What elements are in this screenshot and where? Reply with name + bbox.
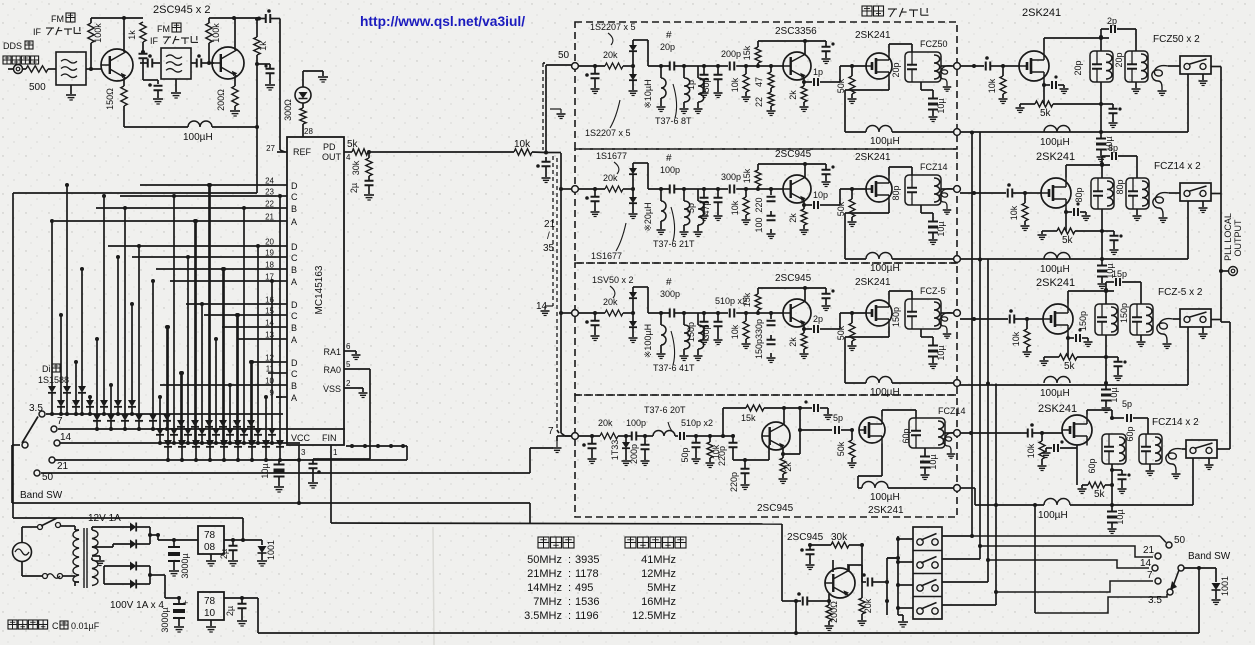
wire drain riser [1043, 38, 1045, 51]
diode 1S1588 [268, 428, 276, 435]
capacitor 220p 2 [743, 458, 747, 462]
coupling link [939, 313, 952, 333]
regulator 7808 [198, 526, 224, 554]
capacitor 1p [802, 80, 806, 84]
wire tank out [941, 65, 954, 67]
svg-text:330p: 330p [754, 319, 764, 339]
wire matrix column [166, 327, 168, 414]
pin 18 B [276, 268, 287, 270]
svg-text:#: # [666, 277, 672, 288]
capacitor 2p top coupling [1100, 29, 1102, 37]
svg-text:2SC945 x 2: 2SC945 x 2 [153, 4, 210, 16]
diode 1S1588 [191, 420, 199, 427]
wire FIN long to stack [887, 557, 898, 559]
resistor 220 [758, 188, 771, 190]
resistor 330p [758, 312, 771, 314]
ground relay [1202, 201, 1204, 207]
band SW right contacts [1166, 542, 1172, 548]
wire rail [960, 384, 1188, 386]
svg-text:1SV50 x 2: 1SV50 x 2 [592, 275, 634, 285]
wire bundle vertical 5 [1034, 505, 1036, 613]
svg-text:2SK241: 2SK241 [1022, 7, 1061, 19]
diode 1S1588 [107, 414, 115, 421]
wire matrix column [89, 397, 91, 400]
coupling link [939, 66, 952, 86]
FET buffer 2SK241 [866, 53, 892, 79]
ground relay [1202, 327, 1204, 333]
transistor Q2 2SC945 [212, 47, 244, 79]
wire source to rail [888, 80, 890, 91]
svg-text:#: # [666, 153, 672, 164]
wire source rail [881, 444, 883, 477]
wire matrix column [271, 281, 273, 428]
pin 28 label [302, 124, 304, 137]
capacitor 10u rail [1100, 132, 1102, 138]
wire matrix column [131, 304, 133, 400]
svg-text:100µH: 100µH [1040, 137, 1070, 148]
svg-text:10µ: 10µ [936, 221, 946, 236]
wire rail [960, 131, 1188, 133]
diode 1S1588 [163, 414, 171, 421]
svg-text:PLL LOCAL: PLL LOCAL [1223, 213, 1233, 261]
svg-text:30k: 30k [351, 160, 361, 175]
svg-text:20k: 20k [603, 173, 618, 183]
wire matrix column [138, 246, 140, 414]
wire emitter [803, 324, 805, 329]
wire bundle vertical 1 [942, 535, 972, 537]
wire matrix column [181, 373, 183, 440]
wire [86, 68, 101, 70]
wire emitter [123, 78, 125, 86]
pin 10 B [276, 384, 287, 386]
svg-text:C: C [52, 621, 59, 631]
tuned transformer 2 FCZ14 [1126, 178, 1149, 209]
svg-text:1178: 1178 [575, 568, 599, 580]
capacitor input bypass [594, 189, 596, 196]
FET 2SK241 output [1043, 304, 1073, 334]
capacitor 2u [368, 176, 370, 180]
wire rail4 step [960, 487, 975, 489]
wire matrix column [257, 246, 259, 428]
svg-text:#: # [666, 30, 672, 41]
resistor 30k [810, 544, 831, 546]
svg-text:1S1588: 1S1588 [38, 375, 69, 385]
pin 13 A [276, 338, 287, 340]
resistor 5k [1067, 338, 1069, 357]
diode 1T33 [625, 436, 627, 442]
svg-text:REF: REF [293, 147, 312, 157]
wire wiper to bottom rail [1198, 568, 1200, 633]
coupling link [939, 189, 952, 209]
svg-text:80p: 80p [1074, 187, 1084, 202]
diode 1S1588 [226, 428, 234, 435]
diode 1S1588 [63, 386, 71, 393]
capacitor bypass [1101, 103, 1113, 105]
FM IF filter 1 [56, 52, 86, 85]
diode 1S1588 [86, 400, 94, 407]
inductor 100uH feedback [124, 126, 188, 128]
svg-text:510p x2: 510p x2 [681, 418, 713, 428]
svg-text:150p: 150p [754, 339, 764, 359]
wire FIN drop [781, 524, 783, 601]
transistor 2SC945 buffer [825, 568, 855, 598]
svg-text:2SK241: 2SK241 [855, 277, 891, 288]
FET 2SK241 [859, 417, 885, 443]
svg-text:100V 1A x 4: 100V 1A x 4 [110, 600, 164, 611]
resistor 1k [254, 37, 260, 55]
node rail output [954, 129, 961, 136]
pin 23 C [276, 195, 287, 197]
lamp / zener indicator [295, 87, 311, 103]
pin 3 VCC [298, 445, 300, 460]
svg-text:3000µ: 3000µ [160, 607, 170, 632]
svg-text:FCZ50 x 2: FCZ50 x 2 [1153, 34, 1200, 45]
wire matrix column [159, 397, 161, 428]
diode 1S1588 [184, 428, 192, 435]
svg-text:2SK241: 2SK241 [1036, 151, 1075, 163]
band bus 7 [58, 428, 345, 430]
wire matrix column [223, 269, 225, 440]
toroid T37-6 41T [682, 311, 686, 315]
svg-text:/: / [547, 231, 550, 242]
wire top rail [758, 40, 826, 42]
diode rectifier 1 [130, 523, 136, 532]
svg-text:10k: 10k [730, 200, 740, 215]
svg-text:10k: 10k [1026, 443, 1036, 458]
wire gate [1027, 318, 1043, 320]
FET 2SK241 output [1041, 178, 1071, 208]
label copper shield [862, 6, 872, 16]
capacitor source bypass [1043, 82, 1045, 86]
svg-text:100k: 100k [93, 23, 103, 43]
resistor 100k [206, 23, 212, 43]
wire matrix column [215, 339, 217, 428]
diode 1S1588 [114, 400, 122, 407]
svg-text:15k: 15k [742, 292, 752, 307]
inductor ※20µH [659, 187, 663, 191]
ground [153, 98, 163, 100]
svg-text:A: A [291, 217, 297, 227]
inductor 100uH rail [845, 382, 866, 384]
FET buffer 2SK241 [866, 176, 892, 202]
svg-text:47: 47 [754, 77, 764, 87]
svg-text:1: 1 [333, 448, 338, 457]
svg-text:2µ: 2µ [225, 606, 235, 616]
svg-text:14: 14 [60, 432, 72, 443]
svg-text:10µ: 10µ [928, 454, 938, 469]
svg-text:1S1677: 1S1677 [596, 151, 627, 161]
diode 1S1588 [149, 414, 157, 421]
wire matrix column [265, 397, 267, 440]
wire matrix column [194, 221, 196, 420]
capacitor 50p [704, 65, 718, 67]
shielded bundle verticals [542, 63, 544, 150]
wire FIN line [331, 523, 782, 524]
svg-text:1S2207 x 5: 1S2207 x 5 [585, 128, 631, 138]
svg-text:FCZ14 x 2: FCZ14 x 2 [1152, 417, 1199, 428]
svg-text:5k: 5k [1094, 489, 1106, 500]
svg-text:150p: 150p [891, 307, 901, 327]
svg-text:10µ: 10µ [936, 345, 946, 360]
svg-text:22: 22 [754, 97, 764, 107]
shield box row1 50MHz [575, 22, 957, 149]
node row output [954, 186, 961, 193]
node row output [954, 63, 961, 70]
diode 1S1588 [234, 440, 242, 447]
capacitor 30p [704, 312, 718, 314]
capacitor with polarity dot [154, 85, 163, 87]
pin 11 C [276, 372, 287, 374]
pin 15 C [276, 314, 287, 316]
svg-text:IF: IF [150, 36, 159, 46]
capacitor bundle bypass [545, 157, 547, 161]
wire matrix column [237, 315, 239, 440]
capacitor 50p [695, 436, 697, 442]
svg-text:50p: 50p [680, 447, 690, 462]
svg-text:2SK241: 2SK241 [1036, 277, 1075, 289]
tuned transformer 1 FCZ50 [1090, 51, 1113, 82]
svg-text:220p: 220p [717, 446, 727, 466]
wire drain [881, 410, 883, 417]
wire matrix column [81, 269, 83, 386]
wire row4 feed [561, 433, 565, 436]
resistor divider 10k [745, 66, 747, 74]
diode 1S1588 [170, 428, 178, 435]
wire band 21 line [980, 546, 1153, 557]
wire band 50 line [972, 535, 1160, 537]
svg-text:14MHz: 14MHz [527, 582, 562, 594]
svg-text:20p: 20p [1073, 60, 1083, 75]
varactor diode 1SV50 x 2 lower [632, 313, 634, 321]
svg-text:FCZ14: FCZ14 [920, 162, 948, 172]
resistor 200ohm [828, 601, 830, 605]
svg-text:15k: 15k [742, 45, 752, 60]
resistor 10k [1023, 191, 1027, 195]
svg-text:3.5MHz: 3.5MHz [524, 610, 562, 622]
capacitor coupling [147, 59, 149, 68]
ground [70, 85, 72, 94]
capacitor 15p top coupling [1105, 282, 1107, 290]
svg-text:60p: 60p [1125, 426, 1135, 441]
ground relay [1202, 74, 1204, 80]
inductor 100uH [858, 487, 862, 489]
svg-text:30p: 30p [701, 324, 711, 339]
capacitor coupling [985, 62, 987, 71]
svg-text:3000µ: 3000µ [180, 553, 190, 578]
tuned transformer 2 FCZ50 [1125, 51, 1148, 82]
diode 1S1588 [156, 428, 164, 435]
diode 1S1588 [93, 414, 101, 421]
diode 1S1588 [220, 440, 228, 447]
svg-text:200p: 200p [721, 49, 741, 59]
diode 1S1588 [121, 414, 129, 421]
svg-text:1001: 1001 [266, 540, 276, 560]
diode 1S1588 [205, 420, 213, 427]
tuned transformer 1 FCZ14 [1102, 434, 1126, 464]
regulator 7810 [198, 592, 224, 620]
wire [578, 435, 600, 437]
transistor 2SC945 [762, 422, 790, 450]
wire source to rail [888, 203, 890, 214]
transistor Q1 2SC945 [101, 49, 133, 81]
transformer T1 primary [74, 526, 76, 530]
wire to buffer [827, 328, 840, 330]
svg-text:2µ: 2µ [349, 183, 359, 193]
shield ground row4 [556, 441, 558, 447]
svg-text:200Ω: 200Ω [829, 601, 839, 623]
ground tank2 [1140, 335, 1142, 341]
wire relay output [1211, 193, 1221, 195]
IC U1 MC145163 [287, 137, 344, 445]
pin 27 [277, 151, 287, 153]
wire top rail [758, 163, 826, 165]
capacitor 220p [710, 435, 723, 437]
resistor 500 [26, 66, 48, 72]
node row output [954, 310, 961, 317]
capacitor 5p [698, 188, 704, 190]
svg-text:7MHz: 7MHz [533, 596, 562, 608]
diode 1S1588 [198, 428, 206, 435]
capacitor 2u [232, 540, 234, 545]
table header osc frequency [625, 537, 636, 548]
shield box row3 14MHz [575, 263, 957, 395]
svg-text:20p: 20p [660, 42, 675, 52]
wire rectifier outputs [149, 527, 151, 544]
svg-text:50p: 50p [701, 77, 711, 92]
svg-text:80p: 80p [891, 185, 901, 200]
transistor 2SC945 [771, 188, 783, 190]
svg-text:2SK241: 2SK241 [855, 30, 891, 41]
capacitor collector bypass [825, 288, 827, 293]
wire gate [1003, 65, 1019, 67]
svg-text:10k: 10k [1009, 205, 1019, 220]
svg-text:1k: 1k [258, 41, 268, 51]
wire matrix column [251, 362, 253, 440]
diode 1001 [261, 540, 263, 545]
wire [256, 55, 258, 64]
capacitor coupling [196, 59, 198, 68]
wire [578, 188, 605, 190]
svg-text:D: D [291, 358, 298, 368]
capacitor bypass [808, 543, 812, 547]
ground relay [1208, 458, 1210, 464]
varactor diode 1S2207 x 5 lower [632, 66, 634, 74]
svg-text:28: 28 [304, 127, 313, 136]
wire band 7 line [996, 581, 1153, 592]
svg-text:50k: 50k [836, 441, 846, 456]
capacitor coupling [1009, 315, 1011, 324]
resistor 50k [851, 189, 853, 199]
band SW left wiper [22, 442, 28, 448]
svg-text:B: B [291, 265, 297, 275]
resistor 10k [1001, 64, 1005, 68]
capacitor 10u [924, 448, 926, 456]
svg-text:2p: 2p [1107, 16, 1117, 26]
diode 1S1588 [240, 428, 248, 435]
ground stack [898, 614, 903, 616]
wire top rail [758, 287, 826, 289]
resistor 150p [770, 335, 772, 339]
capacitor [139, 53, 148, 55]
svg-text:20p: 20p [1114, 52, 1124, 67]
capacitor bypass [1106, 356, 1118, 358]
wire tank out [941, 312, 954, 314]
wire VCC rail left [298, 460, 300, 503]
inductor 100uH rail [1044, 126, 1070, 132]
wire row2 feed [559, 187, 563, 191]
capacitor 47p [704, 188, 718, 190]
svg-text:A: A [291, 277, 297, 287]
capacitor 150p [698, 312, 704, 314]
svg-text:60p: 60p [1087, 458, 1097, 473]
svg-text::: : [568, 568, 571, 580]
wire matrix column [124, 208, 126, 414]
svg-text:27: 27 [266, 144, 275, 153]
svg-text:2µ: 2µ [219, 549, 229, 559]
input connector DDS [14, 65, 23, 74]
wire [302, 71, 304, 87]
svg-text:100µH: 100µH [1040, 388, 1070, 399]
band SW right wiper [1178, 565, 1184, 571]
capacitor bypass [1110, 468, 1114, 472]
svg-text:21MHz: 21MHz [527, 568, 562, 580]
wire matrix column [236, 315, 238, 420]
wire emitter [782, 447, 784, 454]
resistor 10k [1040, 431, 1044, 435]
svg-text:※10µH: ※10µH [643, 79, 653, 108]
capacitor input bypass [591, 436, 593, 443]
diode 1S1588 [276, 440, 284, 447]
wire [578, 312, 605, 314]
ground tank2 [1136, 209, 1138, 215]
varactor diode 1S2207 x 5 upper [632, 40, 634, 45]
wire matrix column [187, 257, 189, 428]
diode 1S1588 [177, 420, 185, 427]
band bus 50 [41, 472, 530, 474]
wire matrix column [180, 373, 182, 420]
svg-text:MC145163: MC145163 [314, 265, 325, 314]
capacitor input [797, 600, 801, 602]
svg-text:VCC: VCC [291, 433, 311, 443]
svg-text:FM: FM [157, 24, 170, 34]
svg-text:150Ω: 150Ω [105, 88, 115, 110]
relay coil switch stack [913, 527, 942, 619]
capacitor REF coupling [265, 14, 267, 23]
capacitor collector bypass [825, 164, 827, 169]
node rail output [954, 380, 961, 387]
svg-text:50: 50 [558, 50, 570, 61]
tuned transformer 2 FCZ-5 [1130, 304, 1153, 335]
svg-text:1536: 1536 [575, 596, 599, 608]
svg-text:1S2207 x 5: 1S2207 x 5 [590, 22, 636, 32]
inductor 100uH rail [1044, 377, 1070, 383]
switch cell 1 [913, 550, 942, 552]
wire collector [783, 408, 785, 425]
coupling link to relay [1166, 449, 1182, 473]
resistor divider 10k [745, 313, 747, 321]
resistor 5k [1065, 212, 1067, 231]
tuned transformer FCZ14 [905, 175, 941, 205]
node band input 7 [572, 433, 579, 440]
svg-text::: : [568, 596, 571, 608]
svg-text:1p: 1p [686, 80, 696, 90]
svg-text:100µH: 100µH [870, 492, 900, 503]
wire wiper common [1184, 567, 1216, 569]
connector PLL local output [1221, 270, 1228, 272]
band SW left contacts [39, 411, 45, 417]
svg-text:C: C [291, 369, 298, 379]
wire matrix column [152, 281, 154, 414]
